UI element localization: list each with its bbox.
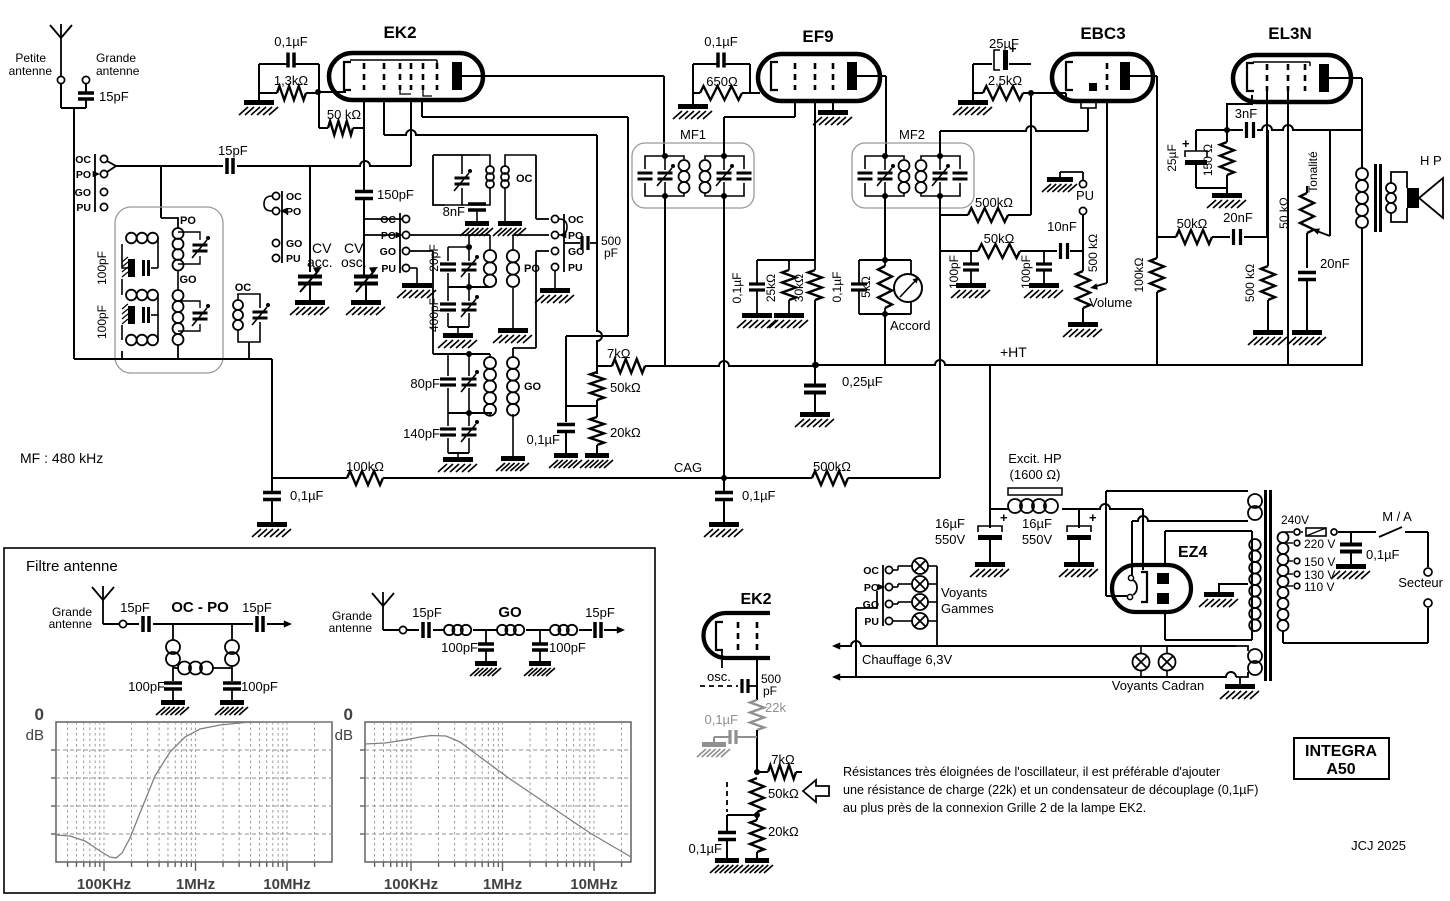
svg-text:antenne: antenne [49, 617, 93, 631]
svg-text:25kΩ: 25kΩ [764, 274, 778, 302]
svg-text:22k: 22k [765, 700, 786, 715]
svg-text:au plus près de la connexion G: au plus près de la connexion Grille 2 de… [843, 801, 1146, 815]
svg-text:GO: GO [75, 187, 91, 199]
svg-text:OC: OC [863, 565, 879, 577]
svg-text:500 kΩ: 500 kΩ [1086, 234, 1100, 272]
svg-text:OC: OC [380, 214, 396, 226]
svg-text:MF1: MF1 [680, 127, 706, 142]
svg-text:PU: PU [381, 263, 396, 275]
svg-text:INTEGRA: INTEGRA [1305, 743, 1377, 760]
svg-text:240V: 240V [1281, 513, 1309, 527]
svg-text:0,1µF: 0,1µF [742, 488, 776, 503]
svg-text:EZ4: EZ4 [1178, 544, 1207, 561]
svg-text:10nF: 10nF [1047, 219, 1077, 234]
svg-text:OC: OC [568, 214, 584, 226]
svg-text:Excit. HP: Excit. HP [1008, 451, 1061, 466]
svg-text:16µF: 16µF [935, 516, 965, 531]
svg-text:PO: PO [76, 169, 91, 181]
svg-text:15pF: 15pF [242, 600, 272, 615]
svg-text:Secteur: Secteur [1398, 575, 1443, 590]
svg-text:OC: OC [75, 154, 91, 166]
svg-text:20pF: 20pF [427, 244, 441, 271]
svg-text:0: 0 [35, 705, 44, 724]
svg-text:50 kΩ: 50 kΩ [327, 107, 362, 122]
svg-text:+: + [1089, 510, 1097, 525]
svg-text:10MHz: 10MHz [263, 876, 311, 893]
svg-text:100pF: 100pF [241, 679, 278, 694]
svg-text:650Ω: 650Ω [706, 74, 738, 89]
svg-text:140pF: 140pF [403, 426, 440, 441]
svg-text:150 Ω: 150 Ω [1201, 144, 1215, 176]
svg-text:EF9: EF9 [802, 27, 833, 46]
svg-text:+: + [1182, 136, 1190, 151]
svg-text:20nF: 20nF [1223, 210, 1253, 225]
svg-text:100KHz: 100KHz [384, 876, 438, 893]
svg-text:16µF: 16µF [1022, 516, 1052, 531]
svg-text:0,25µF: 0,25µF [842, 374, 883, 389]
svg-text:220 V: 220 V [1304, 537, 1335, 551]
svg-text:0,1µF: 0,1µF [730, 273, 744, 304]
svg-text:GO: GO [524, 381, 542, 393]
svg-text:GO: GO [286, 238, 302, 250]
svg-text:PO: PO [180, 215, 196, 227]
svg-text:CAG: CAG [674, 460, 702, 475]
svg-text:Chauffage 6,3V: Chauffage 6,3V [862, 652, 952, 667]
svg-text:EK2: EK2 [740, 591, 771, 608]
svg-text:5kΩ: 5kΩ [859, 276, 873, 298]
svg-text:100pF: 100pF [441, 640, 478, 655]
svg-text:110 V: 110 V [1304, 580, 1334, 594]
svg-text:7kΩ: 7kΩ [607, 346, 631, 361]
svg-text:50kΩ: 50kΩ [610, 380, 641, 395]
svg-text:osc.: osc. [707, 669, 731, 684]
svg-text:0,1µF: 0,1µF [704, 34, 738, 49]
svg-text:25µF: 25µF [1165, 144, 1179, 172]
svg-text:0,1µF: 0,1µF [830, 272, 844, 303]
svg-text:15pF: 15pF [99, 89, 129, 104]
svg-text:Résistances très éloignées de: Résistances très éloignées de l'oscillat… [843, 765, 1220, 779]
svg-text:0,1µF: 0,1µF [274, 34, 308, 49]
svg-text:20nF: 20nF [1320, 256, 1350, 271]
svg-text:GO: GO [498, 604, 522, 621]
svg-text:une résistance de charge (22k): une résistance de charge (22k) et un con… [843, 783, 1258, 797]
svg-text:PO: PO [381, 230, 396, 242]
svg-text:3nF: 3nF [1235, 106, 1257, 121]
svg-text:OC - PO: OC - PO [171, 599, 229, 616]
svg-text:100pF: 100pF [95, 305, 109, 339]
svg-text:Voyants Cadran: Voyants Cadran [1112, 678, 1205, 693]
svg-text:10MHz: 10MHz [570, 876, 618, 893]
svg-text:2,5kΩ: 2,5kΩ [988, 73, 1023, 88]
svg-text:GO: GO [380, 246, 396, 258]
svg-text:100KHz: 100KHz [77, 876, 131, 893]
svg-text:A50: A50 [1326, 761, 1355, 778]
svg-text:PU: PU [76, 202, 91, 214]
svg-text:Gammes: Gammes [941, 601, 994, 616]
svg-text:dB: dB [26, 727, 44, 744]
svg-text:+: + [1009, 41, 1017, 56]
svg-text:EL3N: EL3N [1268, 24, 1311, 43]
svg-text:+HT: +HT [1000, 344, 1027, 360]
svg-text:15pF: 15pF [585, 605, 615, 620]
svg-text:1MHz: 1MHz [176, 876, 215, 893]
svg-text:500kΩ: 500kΩ [813, 459, 851, 474]
svg-text:Petite: Petite [15, 51, 46, 65]
svg-text:100kΩ: 100kΩ [346, 459, 384, 474]
svg-text:100pF: 100pF [128, 679, 165, 694]
svg-text:50kΩ: 50kΩ [984, 231, 1015, 246]
svg-text:100kΩ: 100kΩ [1132, 257, 1146, 292]
svg-text:500kΩ: 500kΩ [975, 195, 1013, 210]
svg-text:500 kΩ: 500 kΩ [1243, 264, 1257, 302]
svg-text:30kΩ: 30kΩ [792, 274, 806, 302]
svg-text:Voyants: Voyants [941, 585, 988, 600]
svg-text:150 V: 150 V [1304, 555, 1335, 569]
svg-text:antenne: antenne [96, 64, 140, 78]
svg-text:80pF: 80pF [410, 376, 440, 391]
svg-text:Tonalité: Tonalité [1306, 151, 1320, 193]
svg-text:PU: PU [864, 616, 879, 628]
svg-text:20kΩ: 20kΩ [768, 824, 799, 839]
svg-text:15pF: 15pF [120, 600, 150, 615]
svg-text:+: + [1000, 510, 1008, 525]
svg-text:150pF: 150pF [377, 187, 414, 202]
svg-text:15pF: 15pF [412, 605, 442, 620]
svg-text:550V: 550V [1022, 532, 1053, 547]
svg-text:50kΩ: 50kΩ [1177, 216, 1208, 231]
svg-text:50 kΩ: 50 kΩ [1277, 197, 1291, 229]
svg-text:MF2: MF2 [899, 127, 925, 142]
svg-text:dB: dB [335, 727, 353, 744]
svg-text:Accord: Accord [890, 318, 930, 333]
svg-text:0,1µF: 0,1µF [1366, 547, 1400, 562]
svg-text:MF : 480 kHz: MF : 480 kHz [20, 450, 103, 466]
svg-text:8nF: 8nF [443, 204, 465, 219]
svg-text:0,1µF: 0,1µF [704, 712, 738, 727]
svg-text:(1600 Ω): (1600 Ω) [1010, 467, 1061, 482]
svg-text:Filtre antenne: Filtre antenne [26, 558, 118, 575]
svg-text:OC: OC [235, 282, 252, 294]
svg-text:0,1µF: 0,1µF [290, 488, 324, 503]
svg-text:20kΩ: 20kΩ [610, 425, 641, 440]
svg-text:0,1µF: 0,1µF [688, 841, 722, 856]
svg-text:PO: PO [286, 206, 301, 218]
svg-text:1MHz: 1MHz [483, 876, 522, 893]
svg-text:0: 0 [344, 705, 353, 724]
svg-text:pF: pF [763, 684, 777, 698]
svg-text:7kΩ: 7kΩ [771, 752, 795, 767]
svg-text:550V: 550V [935, 532, 966, 547]
svg-text:JCJ 2025: JCJ 2025 [1351, 838, 1406, 853]
svg-text:H P: H P [1420, 153, 1442, 168]
svg-text:PO: PO [524, 263, 540, 275]
svg-text:EBC3: EBC3 [1080, 24, 1125, 43]
svg-text:50kΩ: 50kΩ [768, 786, 799, 801]
svg-text:OC: OC [516, 173, 533, 185]
svg-text:M / A: M / A [1382, 509, 1412, 524]
svg-text:EK2: EK2 [383, 23, 416, 42]
svg-text:PU: PU [1076, 188, 1094, 203]
svg-text:PU: PU [286, 253, 301, 265]
svg-text:antenne: antenne [9, 64, 53, 78]
svg-text:100pF: 100pF [549, 640, 586, 655]
svg-text:osc.: osc. [341, 254, 367, 270]
svg-text:0,1µF: 0,1µF [526, 432, 560, 447]
svg-text:15pF: 15pF [218, 143, 248, 158]
svg-text:Volume: Volume [1089, 295, 1132, 310]
svg-text:100pF: 100pF [95, 251, 109, 285]
svg-text:antenne: antenne [329, 621, 373, 635]
svg-text:GO: GO [179, 274, 197, 286]
svg-text:400pF: 400pF [427, 298, 441, 332]
svg-text:OC: OC [286, 191, 302, 203]
svg-text:Grande: Grande [96, 51, 136, 65]
svg-text:pF: pF [604, 246, 618, 260]
svg-text:PU: PU [568, 262, 583, 274]
